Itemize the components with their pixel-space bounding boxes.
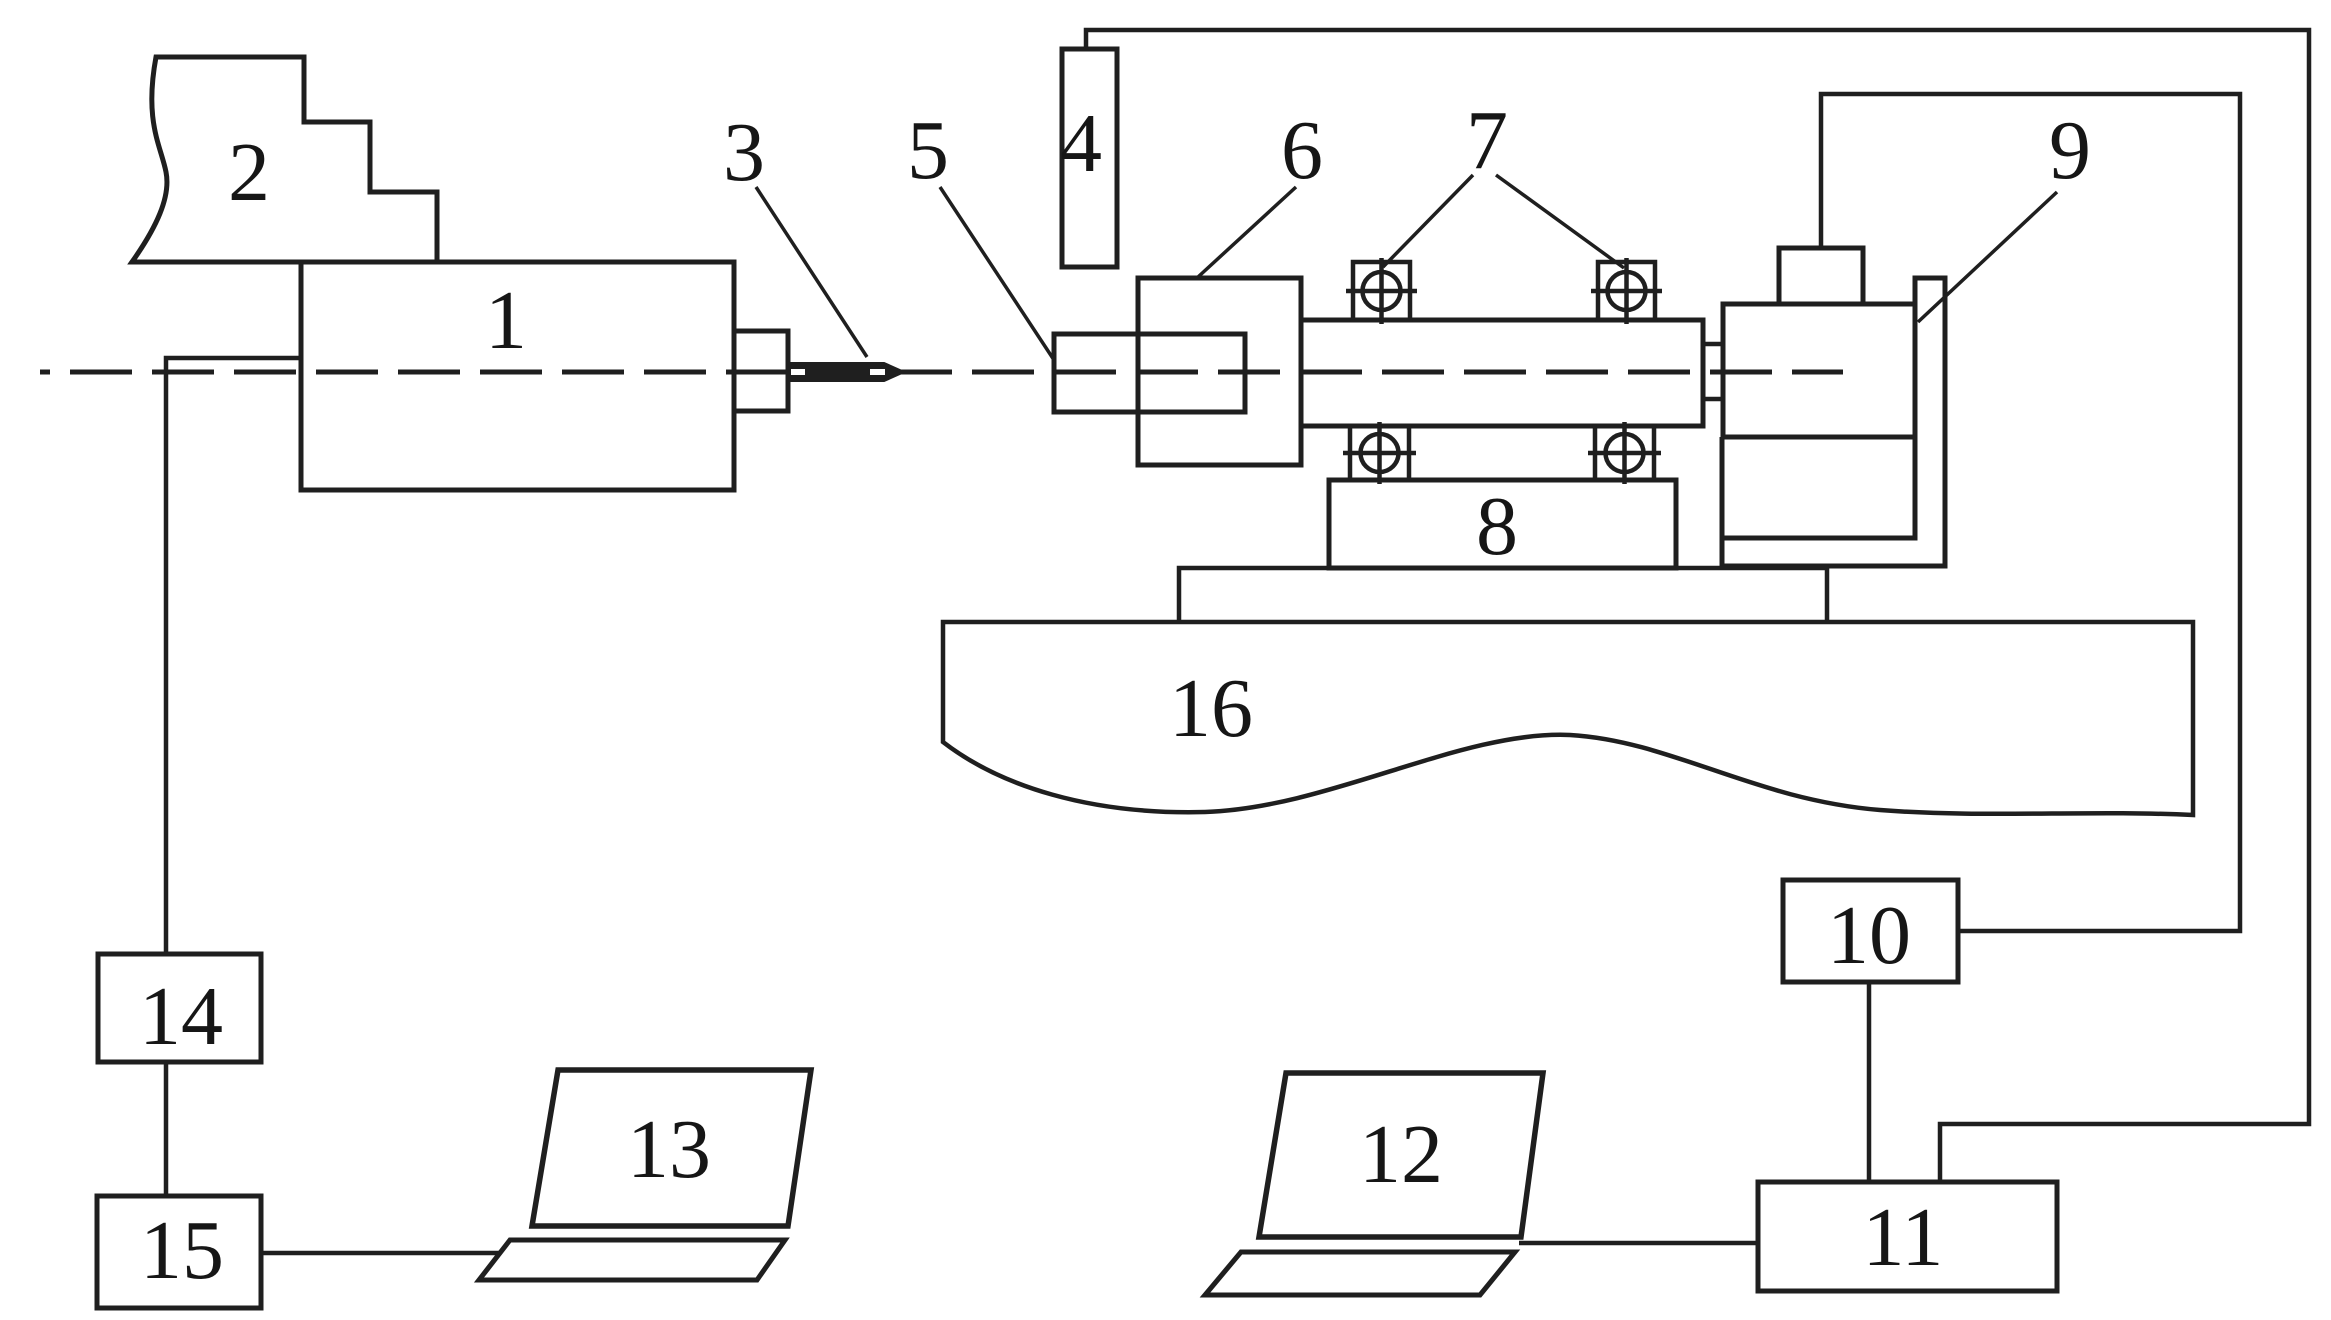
svg-text:12: 12 [1359, 1108, 1443, 1201]
base 16 [943, 622, 2193, 815]
svg-text:14: 14 [139, 970, 223, 1063]
leader 7 left [1383, 175, 1473, 267]
box 15 [97, 1196, 261, 1308]
laptop 13 base [479, 1240, 785, 1280]
coupling [1703, 344, 1723, 399]
holder 6 [1138, 278, 1301, 465]
leader 5 [940, 187, 1054, 360]
bearing 7 top-left [1346, 258, 1417, 324]
leader 9 [1918, 192, 2057, 322]
svg-text:15: 15 [140, 1204, 224, 1297]
bracket L-shape [1722, 278, 1945, 566]
svg-text:8: 8 [1476, 480, 1518, 573]
tool needle 3 [788, 364, 903, 381]
needle white slits [791, 369, 885, 375]
svg-text:3: 3 [723, 106, 765, 199]
wire 4 to 11 around page [1086, 30, 2309, 1182]
wire laptop 12 to 11 [1519, 1241, 1758, 1246]
box 10 [1783, 880, 1958, 982]
svg-text:6: 6 [1281, 104, 1323, 197]
spindle nose stub [734, 331, 788, 411]
slide plate [1179, 568, 1827, 622]
motor under-edge [1720, 437, 1725, 540]
wire 10 to 11 [1867, 982, 1872, 1182]
svg-text:16: 16 [1169, 662, 1253, 755]
svg-text:4: 4 [1060, 97, 1102, 190]
leader 6 [1198, 187, 1296, 277]
support block 8 [1329, 480, 1676, 568]
laptop 12 base [1205, 1252, 1515, 1295]
svg-text:1: 1 [485, 274, 527, 367]
bearing bottom-left [1343, 422, 1416, 484]
bearing 7 top-right [1591, 258, 1662, 324]
bearing bottom-right [1588, 422, 1661, 484]
motor top stub [1779, 248, 1863, 304]
box 14 [98, 954, 261, 1062]
svg-text:7: 7 [1466, 94, 1508, 187]
svg-text:9: 9 [2049, 104, 2091, 197]
leader 3 [756, 187, 867, 357]
laptop 12 screen [1259, 1073, 1543, 1237]
svg-text:13: 13 [627, 1103, 711, 1196]
sensor box 4 [1062, 49, 1117, 267]
chuck body 2 [132, 57, 437, 262]
wire box1 to 14 [166, 358, 301, 953]
workpiece 5 [1054, 334, 1245, 412]
svg-text:2: 2 [228, 126, 270, 219]
centerline [40, 370, 1843, 375]
laptop 13 screen [532, 1070, 811, 1226]
box 11 [1758, 1182, 2057, 1291]
wire 15 to laptop 13 [263, 1251, 500, 1256]
wire 14 to 15 [164, 1063, 169, 1196]
wire motor 9 to 10 [1821, 94, 2240, 931]
shaft [1301, 320, 1703, 426]
svg-text:11: 11 [1863, 1191, 1944, 1284]
motor 9 body [1723, 304, 1915, 437]
leader 7 right [1496, 175, 1624, 268]
svg-text:5: 5 [907, 104, 949, 197]
spindle box 1 [301, 262, 734, 490]
svg-text:10: 10 [1827, 889, 1911, 982]
